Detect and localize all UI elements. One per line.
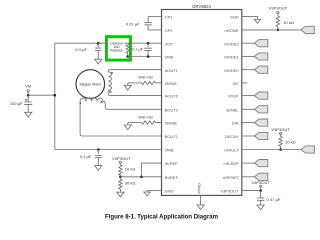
node R1 to VMA line xyxy=(126,55,129,58)
svg-text:VCP: VCP xyxy=(165,41,174,46)
ground below C6 xyxy=(95,166,102,171)
svg-text:V3P3OUT: V3P3OUT xyxy=(269,6,288,11)
polarity dot winding A start xyxy=(111,72,113,74)
svg-text:ISENA: ISENA xyxy=(165,81,177,86)
svg-text:GND: GND xyxy=(165,189,174,194)
wire V3P3OUT output xyxy=(242,190,261,192)
resistor R2 10 kOhm xyxy=(276,16,279,27)
svg-text:30 kΩ: 30 kΩ xyxy=(125,181,136,186)
svg-text:nFAULT: nFAULT xyxy=(224,148,239,153)
svg-text:DIR: DIR xyxy=(232,121,239,126)
svg-text:ISENB: ISENB xyxy=(165,121,177,126)
node AVREF branch xyxy=(140,176,143,179)
svg-text:V3P3OUT: V3P3OUT xyxy=(220,189,239,194)
wire AOUT1 xyxy=(108,70,161,72)
svg-text:CP2: CP2 xyxy=(165,28,174,33)
ground below C1 xyxy=(25,112,32,117)
terminal nENBL xyxy=(254,106,267,113)
wire DECAY xyxy=(242,135,255,137)
capacitor C2 0.1uF VM bypass xyxy=(97,43,99,47)
capacitor C6 0.1uF VMB bypass xyxy=(97,150,99,155)
svg-text:nHOME: nHOME xyxy=(224,28,239,33)
resistor R4 30 kOhm xyxy=(119,177,121,180)
svg-text:AOUT2: AOUT2 xyxy=(165,94,179,99)
wire BOUT2 xyxy=(103,101,162,109)
svg-text:0.1 µF: 0.1 µF xyxy=(132,46,144,51)
ground at ISENB xyxy=(127,123,129,125)
resistor R3 10 kOhm xyxy=(119,165,122,175)
polarity circle winding A end xyxy=(110,91,112,93)
wire PPAD stub xyxy=(200,195,202,205)
wire divider to AVREF xyxy=(141,163,161,177)
ground at GND pin left xyxy=(144,192,150,196)
wire CP1 xyxy=(148,16,161,18)
svg-text:nENBL: nENBL xyxy=(226,107,239,112)
inductor LA winding A xyxy=(108,72,111,90)
ground below C2 xyxy=(95,59,102,64)
svg-text:MODE1: MODE1 xyxy=(224,55,239,60)
terminal VM xyxy=(27,90,29,92)
svg-text:400 mΩ: 400 mΩ xyxy=(138,75,152,80)
wire divider to BVREF xyxy=(120,176,161,178)
resistor R1 optional 1 kOhm xyxy=(126,43,129,53)
svg-text:AOUT1: AOUT1 xyxy=(165,68,179,73)
svg-text:0.01 µF: 0.01 µF xyxy=(126,21,140,26)
svg-text:0.47 µF: 0.47 µF xyxy=(267,197,281,202)
svg-text:10 kΩ: 10 kΩ xyxy=(283,20,294,25)
svg-text:0.1 µF: 0.1 µF xyxy=(80,154,92,159)
svg-text:VM: VM xyxy=(25,84,32,89)
svg-text:V3P3OUT: V3P3OUT xyxy=(112,156,131,161)
svg-text:BOUT1: BOUT1 xyxy=(165,134,179,139)
terminal nSLEEP xyxy=(254,160,267,167)
terminal nHOME xyxy=(301,26,314,33)
svg-text:400 mΩ: 400 mΩ xyxy=(138,114,152,119)
ground below C5 xyxy=(257,205,264,210)
capacitor C5 0.47uF xyxy=(260,191,262,198)
wire nHOME xyxy=(242,29,301,31)
node nFAULT junction xyxy=(279,148,282,151)
ground below divider xyxy=(117,192,124,197)
wire AOUT2 xyxy=(108,90,161,95)
svg-text:V3P3OUT: V3P3OUT xyxy=(271,127,290,132)
svg-text:AVREF: AVREF xyxy=(165,161,179,166)
svg-text:0.1 µF: 0.1 µF xyxy=(75,47,87,52)
wire STEP xyxy=(242,95,255,97)
node nHOME junction xyxy=(277,29,280,32)
wire VM bottom branch to VMB xyxy=(55,149,162,151)
svg-text:GND: GND xyxy=(230,15,239,20)
resistor R_ISENB 400 mOhm xyxy=(128,122,142,124)
wire nFAULT xyxy=(242,149,301,151)
wire DIR xyxy=(242,122,255,124)
terminal nFAULT xyxy=(301,146,314,153)
wire nENBL xyxy=(242,108,255,110)
node V3P3OUT pull-up (nHOME) xyxy=(277,12,279,14)
terminal MODE1 xyxy=(254,53,267,60)
node junction VM terminal xyxy=(27,94,30,97)
node VMB line junction xyxy=(97,148,100,151)
svg-text:BOUT2: BOUT2 xyxy=(165,107,179,112)
polarity dot winding B start xyxy=(80,102,82,104)
svg-text:V3P3OUT: V3P3OUT xyxy=(251,180,270,185)
wire GND pin right xyxy=(242,17,258,20)
svg-text:CP1: CP1 xyxy=(165,15,174,20)
wire BOUT1 loop xyxy=(80,101,161,136)
polarity circle winding B end xyxy=(101,101,103,103)
svg-text:MODE2: MODE2 xyxy=(224,41,239,46)
ground at PPAD xyxy=(197,205,204,210)
terminal DIR xyxy=(254,119,267,126)
ground at ISENA xyxy=(127,83,129,85)
svg-text:nRESET: nRESET xyxy=(223,175,239,180)
node VM/VCP top line junction xyxy=(97,42,100,45)
resistor R_ISENA 400 mOhm xyxy=(128,82,142,84)
node divider junction xyxy=(119,176,122,179)
node V3P3OUT pull-up (nFAULT) xyxy=(280,132,282,134)
inductor LB winding B xyxy=(80,98,103,101)
wire MODE0 xyxy=(242,69,255,71)
capacitor C1 100uF bulk xyxy=(27,95,29,102)
svg-text:nSLEEP: nSLEEP xyxy=(223,161,238,166)
svg-text:BVREF: BVREF xyxy=(165,175,179,180)
op-amp/driver U1 DRV8824 body xyxy=(162,10,242,196)
capacitor C4 0.01uF CP1-CP2 xyxy=(147,17,149,23)
svg-text:NC: NC xyxy=(233,81,239,86)
svg-text:MODE0: MODE0 xyxy=(224,68,239,73)
svg-text:100 µF: 100 µF xyxy=(10,101,23,106)
svg-text:10 kΩ: 10 kΩ xyxy=(285,139,296,144)
terminal STEP xyxy=(254,92,267,99)
svg-text:10 kΩ: 10 kΩ xyxy=(125,167,136,172)
node junction VM rail xyxy=(54,94,57,97)
svg-text:Resistor: Resistor xyxy=(110,49,123,53)
svg-text:VMB: VMB xyxy=(165,148,174,153)
terminal V3P3OUT xyxy=(260,185,262,187)
stepper motor M1 xyxy=(76,70,105,99)
wire MODE1 xyxy=(242,56,255,58)
wire VM rail vertical xyxy=(54,43,56,149)
highlight box around R1 (green) xyxy=(106,37,130,60)
terminal DECAY xyxy=(254,132,267,139)
resistor R5 10 kOhm xyxy=(279,136,282,146)
wire NC stub xyxy=(242,82,248,84)
terminal MODE2 xyxy=(254,40,267,47)
wire GND pin left xyxy=(147,190,162,192)
svg-text:VMA: VMA xyxy=(165,55,174,60)
capacitor C3 0.1uF VCP xyxy=(147,42,150,45)
svg-text:PPAD: PPAD xyxy=(196,183,201,194)
node V3P3OUT divider top xyxy=(119,161,121,163)
wire VMA line xyxy=(128,56,162,58)
svg-text:Figure 8-1. Typical Applicatio: Figure 8-1. Typical Application Diagram xyxy=(105,214,218,220)
svg-text:STEP: STEP xyxy=(228,94,239,99)
wire nSLEEP xyxy=(242,162,255,164)
ground at GND pin right xyxy=(254,19,260,23)
wire CP2 xyxy=(148,29,161,31)
svg-text:Stepper Motor: Stepper Motor xyxy=(80,82,102,86)
svg-text:DECAY: DECAY xyxy=(225,134,239,139)
wire nRESET xyxy=(242,176,255,178)
node V3P3OUT output junction xyxy=(259,189,262,192)
terminal nRESET xyxy=(254,173,267,180)
terminal MODE0 xyxy=(254,66,267,73)
wire VM top branch to VCP xyxy=(55,42,162,44)
wire MODE2 xyxy=(242,42,255,44)
svg-text:DRV8824: DRV8824 xyxy=(192,4,211,9)
wire VM terminal branch xyxy=(28,94,55,96)
